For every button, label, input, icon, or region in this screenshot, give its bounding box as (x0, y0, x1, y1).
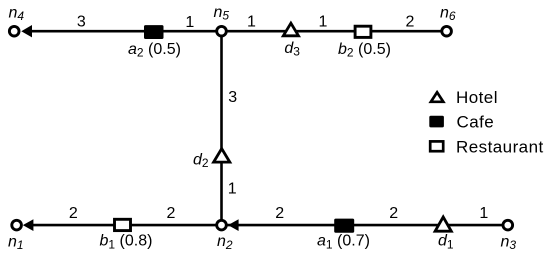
wire top edge n4-n5-n6 (26, 30, 441, 33)
svg-text:1: 1 (247, 13, 256, 30)
node n1 (12, 220, 22, 230)
wire bottom edge n1-n2-n3 (27, 224, 503, 227)
svg-text:a1 (0.7): a1 (0.7) (317, 233, 370, 252)
cafe marker a1 (334, 219, 354, 233)
node n2 (217, 220, 227, 230)
arrowhead into n4 (21, 25, 32, 37)
node n3 (503, 220, 513, 230)
svg-text:1: 1 (185, 14, 194, 31)
arrowhead into n2 (228, 219, 239, 231)
svg-text:2: 2 (275, 205, 284, 222)
svg-text:1: 1 (228, 181, 237, 198)
svg-text:b1 (0.8): b1 (0.8) (100, 233, 153, 252)
svg-text:2: 2 (389, 205, 398, 222)
svg-text:3: 3 (77, 13, 86, 30)
svg-text:2: 2 (69, 205, 78, 222)
svg-text:Cafe: Cafe (457, 112, 495, 131)
legend hotel marker (431, 92, 443, 102)
legend restaurant marker (430, 141, 443, 151)
svg-text:2: 2 (406, 13, 415, 30)
hotel marker d1 (435, 217, 451, 231)
svg-text:2: 2 (167, 205, 176, 222)
arrowhead into n1 (23, 219, 34, 231)
svg-text:Restaurant: Restaurant (456, 137, 544, 156)
hotel marker d3 (283, 23, 298, 36)
restaurant marker b2 (355, 26, 371, 37)
wire vertical edge n5-n2 (220, 34, 223, 222)
node n6 (442, 26, 452, 36)
restaurant marker b1 (115, 219, 131, 230)
node n5 (217, 26, 227, 36)
svg-text:Hotel: Hotel (456, 88, 498, 107)
hotel marker d2 (214, 149, 230, 163)
node n4 (9, 26, 19, 36)
svg-text:1: 1 (319, 13, 328, 30)
svg-text:3: 3 (228, 89, 237, 106)
svg-text:1: 1 (479, 205, 488, 222)
svg-text:b2 (0.5): b2 (0.5) (338, 41, 391, 60)
cafe marker a2 (144, 25, 164, 39)
legend cafe marker (429, 116, 444, 128)
svg-text:a2 (0.5): a2 (0.5) (128, 41, 181, 60)
